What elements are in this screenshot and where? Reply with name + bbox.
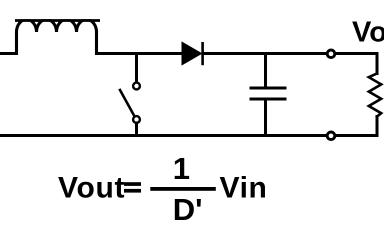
- capacitor C1 top plate: [251, 87, 285, 90]
- equation: equals sign upper bar: [124, 182, 141, 186]
- svg-text:Vin: Vin: [220, 172, 268, 205]
- wire: terminal to load corner: [336, 54, 378, 74]
- diode D1 triangle: [182, 42, 202, 64]
- wire: top rail, inductor to diode: [97, 52, 183, 55]
- wire: capacitor branch upper: [264, 54, 267, 88]
- wire: top rail, diode to output terminal: [204, 52, 327, 55]
- svg-text:1: 1: [173, 151, 190, 186]
- diode D1 cathode bar: [201, 42, 204, 65]
- svg-text:D': D': [173, 192, 203, 227]
- wire: resistor to bottom terminal: [336, 117, 378, 136]
- inductor L1 core bar: [15, 19, 100, 22]
- wire: capacitor branch lower: [264, 101, 267, 136]
- svg-text:Vout: Vout: [352, 17, 384, 49]
- equation fraction bar: [150, 187, 216, 191]
- terminal: Vout -: [327, 132, 335, 140]
- wire: switch branch from top rail: [135, 54, 138, 83]
- terminal: Vout +: [327, 50, 335, 58]
- capacitor C1 bottom plate: [251, 98, 285, 101]
- resistor R-load zigzag: [369, 74, 381, 117]
- switch S1 blade: [120, 90, 134, 116]
- wire: left input to inductor: [0, 52, 17, 55]
- switch S1 top contact: [133, 83, 140, 90]
- equation: equals sign lower bar: [124, 189, 141, 193]
- svg-text:Vout: Vout: [58, 172, 125, 205]
- wire: bottom rail: [0, 134, 327, 137]
- wire: switch to bottom rail: [135, 123, 138, 136]
- switch S1 bottom contact: [133, 116, 140, 123]
- inductor L1 coil: [17, 20, 97, 54]
